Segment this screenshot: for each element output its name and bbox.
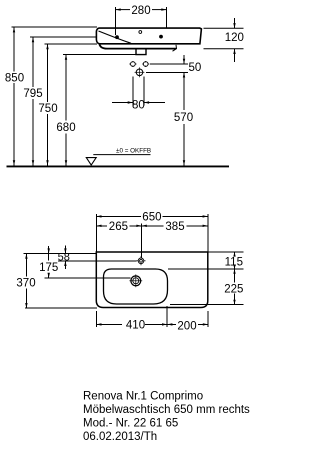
basin outline (front elevation) xyxy=(96,28,201,44)
dim 265 / 385 xyxy=(96,224,208,258)
svg-text:Mod.- Nr. 22 61 65: Mod.- Nr. 22 61 65 xyxy=(83,417,178,429)
svg-text:Renova Nr.1 Comprimo: Renova Nr.1 Comprimo xyxy=(83,390,203,402)
plan bowl xyxy=(104,269,168,304)
svg-text:265: 265 xyxy=(109,221,128,233)
deck hole (small circle) xyxy=(139,31,142,34)
svg-text:±0 = OKFFB: ±0 = OKFFB xyxy=(116,148,151,155)
tap hole left (filled dot) xyxy=(115,35,119,39)
svg-text:385: 385 xyxy=(165,221,184,233)
floor level marker line xyxy=(93,154,150,156)
svg-text:225: 225 xyxy=(224,283,243,295)
drain stub below basin xyxy=(136,49,146,55)
svg-text:370: 370 xyxy=(16,278,35,290)
svg-text:58: 58 xyxy=(58,252,70,264)
svg-text:120: 120 xyxy=(225,32,244,44)
dim 120 ticks xyxy=(204,18,244,62)
dim 750 line xyxy=(45,43,98,45)
dim 850 line xyxy=(12,26,98,28)
svg-text:Möbelwaschtisch 650 mm rechts: Möbelwaschtisch 650 mm rechts xyxy=(83,404,250,416)
drain duct lines xyxy=(133,77,144,106)
svg-text:200: 200 xyxy=(177,320,196,332)
dim 80 lines xyxy=(112,102,165,104)
drain connection circle xyxy=(135,67,145,77)
dim 680 line xyxy=(63,54,136,56)
dim 795 line xyxy=(30,36,97,38)
svg-text:06.02.2013/Th: 06.02.2013/Th xyxy=(83,431,157,443)
dim 115 / 225 xyxy=(168,252,244,304)
supply connection right circle xyxy=(142,61,149,67)
svg-text:80: 80 xyxy=(132,99,145,111)
svg-text:410: 410 xyxy=(126,320,145,332)
dim 650 xyxy=(96,214,208,252)
tap hole right (filled dot) xyxy=(159,35,163,39)
svg-text:50: 50 xyxy=(189,62,202,74)
svg-text:115: 115 xyxy=(225,256,243,268)
dim 410 / 200 xyxy=(96,306,208,327)
floor level triangle xyxy=(86,158,96,165)
dim 280 line xyxy=(116,7,167,35)
plan drain xyxy=(129,274,142,287)
plan tap hole xyxy=(137,256,146,265)
plan basin rectangle xyxy=(96,252,208,308)
svg-text:795: 795 xyxy=(23,88,42,100)
svg-text:650: 650 xyxy=(142,212,161,224)
svg-text:850: 850 xyxy=(5,72,24,84)
svg-text:175: 175 xyxy=(39,262,58,274)
svg-text:680: 680 xyxy=(56,122,75,134)
svg-text:280: 280 xyxy=(131,5,150,17)
dim 50 ext lines xyxy=(146,55,188,72)
dim 570 line xyxy=(183,72,185,165)
svg-text:570: 570 xyxy=(174,112,193,124)
underside right hook xyxy=(173,45,177,51)
dim 175 xyxy=(44,246,130,278)
basin bowl front curve xyxy=(99,31,132,43)
basin underside band xyxy=(100,44,177,49)
supply connection left circle xyxy=(129,61,136,67)
floor line xyxy=(7,165,230,167)
svg-text:750: 750 xyxy=(38,103,57,115)
dim 58 xyxy=(24,246,137,270)
dim 370 xyxy=(25,254,97,309)
